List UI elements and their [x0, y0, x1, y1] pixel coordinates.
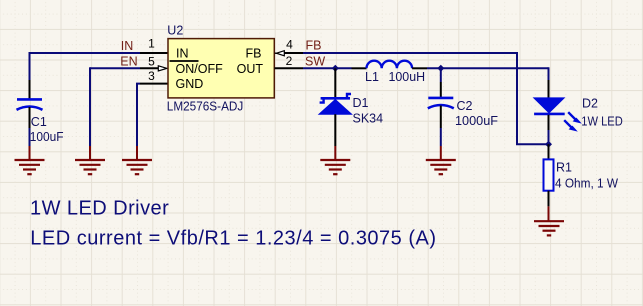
pin: LED anode: [548, 80, 550, 99]
resistor R1: [544, 144, 554, 206]
overline ON/OFF: [170, 60, 199, 62]
svg-text:LM2576S-ADJ: LM2576S-ADJ: [167, 100, 244, 114]
svg-text:FB: FB: [246, 47, 262, 61]
wire: FB net: [303, 53, 547, 144]
LED arrow 2: [564, 120, 572, 128]
svg-text:4: 4: [286, 38, 293, 52]
inductor L1: [352, 61, 428, 69]
svg-text:IN: IN: [121, 39, 134, 53]
svg-text:LED current = Vfb/R1 = 1.23/4: LED current = Vfb/R1 = 1.23/4 = 0.3075 (…: [30, 227, 436, 249]
pin U2.2 OUT: [275, 67, 304, 69]
node junction FB/LED/R1: [545, 141, 552, 148]
svg-text:ON/OFF: ON/OFF: [176, 62, 224, 76]
ground (D1): [320, 146, 350, 174]
ground (pin3): [122, 146, 152, 174]
ground (EN): [75, 146, 105, 174]
svg-text:4 Ohm, 1 W: 4 Ohm, 1 W: [555, 176, 618, 190]
ground (C2): [426, 146, 456, 174]
node SW junction C2: [437, 65, 444, 72]
svg-text:R1: R1: [556, 160, 572, 174]
svg-text:GND: GND: [176, 77, 204, 91]
svg-text:D1: D1: [353, 96, 369, 110]
svg-text:1W LED Driver: 1W LED Driver: [30, 198, 169, 220]
svg-text:5: 5: [148, 55, 155, 69]
svg-text:C2: C2: [457, 99, 473, 113]
svg-text:OUT: OUT: [237, 62, 264, 76]
svg-text:SK34: SK34: [353, 112, 384, 126]
capacitor C2: [428, 68, 454, 128]
wire: L1 to C2 to LED corner: [427, 67, 549, 69]
svg-text:C1: C1: [31, 115, 47, 129]
ground (R1): [534, 206, 564, 235]
wire: C1 top vertical: [29, 52, 31, 80]
wire: C1 bottom: [29, 128, 31, 146]
svg-text:2: 2: [286, 54, 293, 68]
wire: SW corner down to LED: [548, 67, 550, 80]
wire: D1 top: [334, 68, 336, 98]
pin U2.3 GND: [140, 83, 168, 85]
svg-text:100uH: 100uH: [389, 70, 426, 84]
node SW junction D1: [332, 65, 339, 72]
svg-text:1000uF: 1000uF: [455, 114, 498, 128]
wire: C2 bottom: [440, 128, 442, 146]
pin U2.1 IN: [140, 52, 168, 54]
svg-text:IN: IN: [176, 47, 189, 61]
svg-text:1W LED: 1W LED: [581, 114, 623, 128]
diode D1 SK34 schottky: [319, 94, 352, 146]
wire: SW pin2 to D1 and L1: [303, 67, 352, 69]
svg-text:EN: EN: [120, 55, 137, 69]
IC U2 LM2576S-ADJ body: [168, 39, 274, 98]
wire: pin3 corner to ground: [137, 84, 140, 146]
LED D2: [534, 98, 582, 132]
svg-text:3: 3: [148, 69, 155, 83]
svg-text:100uF: 100uF: [30, 130, 64, 144]
wire: EN net horizontal: [90, 67, 140, 69]
capacitor C1: [17, 80, 43, 128]
svg-text:SW: SW: [305, 55, 325, 69]
ground (C1): [15, 146, 45, 174]
svg-text:L1: L1: [365, 70, 379, 84]
wire: EN vertical to ground: [89, 67, 91, 146]
svg-text:D2: D2: [582, 97, 598, 111]
svg-text:U2: U2: [167, 24, 183, 38]
pin U2.4 FB with input arrow: [275, 51, 303, 56]
wire: LED cathode to junction: [548, 130, 550, 144]
svg-text:FB: FB: [306, 39, 322, 53]
LED arrow 1: [568, 112, 576, 120]
pin U2.5 ON/OFF: [140, 66, 167, 71]
svg-text:1: 1: [148, 37, 155, 51]
wire: top rail C1 to pin1 (net IN): [30, 52, 141, 54]
